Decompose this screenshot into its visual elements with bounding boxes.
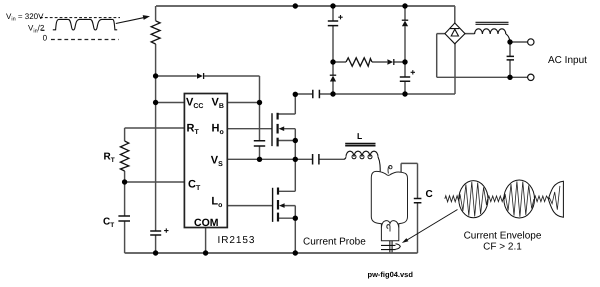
svg-text:C: C [426,189,433,200]
svg-text:0: 0 [43,33,48,42]
svg-text:AC Input: AC Input [548,55,587,66]
svg-text:L: L [357,131,362,141]
svg-text:Current Probe: Current Probe [303,237,366,248]
svg-text:IR2153: IR2153 [218,235,256,246]
svg-text:pw-fig04.vsd: pw-fig04.vsd [368,270,414,279]
svg-text:CF > 2.1: CF > 2.1 [483,242,522,253]
svg-text:COM: COM [194,217,219,229]
svg-text:Current Envelope: Current Envelope [464,231,542,242]
